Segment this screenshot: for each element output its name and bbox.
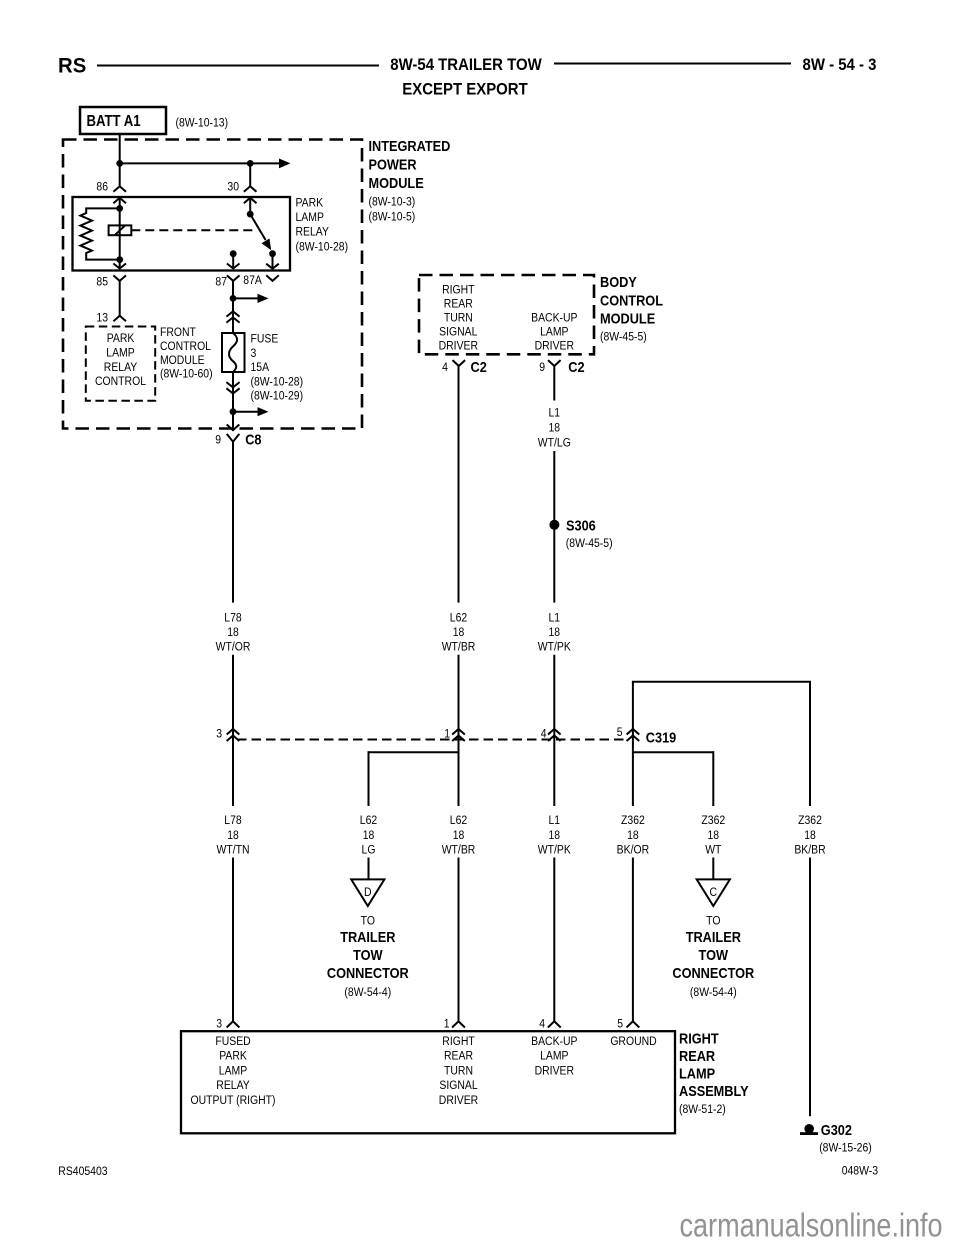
svg-text:4: 4 [539, 1018, 545, 1031]
connector C2 pin 4 female [453, 360, 466, 366]
relay suppression resistor [80, 208, 119, 259]
svg-text:(8W-54-4): (8W-54-4) [344, 986, 391, 999]
wire L78 to C319 [232, 655, 234, 806]
wire back-up lamp driver upper [553, 366, 555, 401]
svg-text:BACK-UP: BACK-UP [531, 1035, 577, 1048]
wire bus to pin 30 with arrow [120, 162, 280, 164]
svg-text:DRIVER: DRIVER [439, 1094, 478, 1107]
svg-text:5: 5 [617, 726, 623, 739]
svg-text:CONNECTOR: CONNECTOR [672, 964, 754, 981]
svg-text:1: 1 [444, 728, 450, 741]
svg-text:18: 18 [548, 626, 560, 639]
svg-text:PARK: PARK [296, 197, 324, 210]
svg-text:RS: RS [58, 54, 86, 77]
svg-text:9: 9 [215, 434, 221, 447]
svg-text:(8W-10-13): (8W-10-13) [176, 117, 229, 130]
C319 chevrons pin 4 [548, 729, 561, 735]
svg-text:G302: G302 [821, 1121, 852, 1138]
svg-text:WT/BR: WT/BR [442, 844, 476, 857]
svg-text:(8W-10-28): (8W-10-28) [296, 241, 349, 254]
connector C2 pin 9 female [548, 360, 561, 366]
fuse 3 element [222, 333, 245, 372]
pin 87 connector inside [227, 264, 240, 269]
wire L1 to C319 [553, 655, 555, 806]
svg-text:Z362: Z362 [798, 814, 822, 827]
svg-text:RELAY: RELAY [216, 1079, 250, 1092]
svg-text:TO: TO [361, 915, 376, 928]
svg-text:RELAY: RELAY [104, 361, 138, 374]
svg-text:4: 4 [541, 728, 547, 741]
svg-text:18: 18 [548, 829, 560, 842]
svg-text:MODULE: MODULE [369, 174, 424, 191]
svg-text:1: 1 [444, 1018, 450, 1031]
svg-text:Z362: Z362 [701, 814, 725, 827]
relay contact 87 dot [230, 250, 237, 257]
svg-text:CONTROL: CONTROL [600, 291, 663, 308]
svg-text:TO: TO [706, 915, 721, 928]
wire Z362 BK/OR lower [632, 858, 634, 1022]
svg-text:8W-54 TRAILER TOW: 8W-54 TRAILER TOW [390, 56, 542, 74]
pin 87A connector inside [266, 264, 279, 269]
off-page connector C [697, 879, 730, 906]
C319 chevrons pin 1 [452, 729, 465, 735]
svg-text:85: 85 [96, 276, 108, 289]
wire fuse down to C8 [232, 372, 234, 430]
svg-text:BODY: BODY [600, 273, 637, 290]
pin 87A connector unused [266, 275, 279, 281]
svg-text:(8W-54-4): (8W-54-4) [690, 986, 737, 999]
svg-text:13: 13 [96, 312, 108, 325]
wire L1 lower [553, 858, 555, 1022]
svg-text:18: 18 [363, 829, 375, 842]
svg-text:LAMP: LAMP [679, 1064, 715, 1081]
wire Z362 BK/BR to G302 [809, 858, 811, 1117]
svg-text:ASSEMBLY: ASSEMBLY [679, 1082, 749, 1099]
svg-text:Z362: Z362 [621, 814, 645, 827]
svg-text:BK/BR: BK/BR [794, 844, 825, 857]
pin 86 connector [113, 186, 126, 192]
svg-text:BACK-UP: BACK-UP [531, 312, 577, 325]
svg-text:DRIVER: DRIVER [535, 340, 574, 353]
pin 13 connector [113, 316, 126, 322]
svg-text:WT/BR: WT/BR [442, 641, 476, 654]
relay actuation dashed link [131, 229, 257, 231]
svg-text:WT/PK: WT/PK [538, 844, 571, 857]
svg-text:EXCEPT EXPORT: EXCEPT EXPORT [402, 81, 528, 99]
pin 85 connector female [113, 275, 126, 281]
svg-text:86: 86 [96, 181, 108, 194]
svg-text:3: 3 [251, 347, 257, 360]
svg-text:CONTROL: CONTROL [160, 340, 211, 353]
svg-text:PARK: PARK [219, 1050, 247, 1063]
wire BATT A1 to pin 86 [119, 134, 121, 186]
svg-text:048W-3: 048W-3 [842, 1165, 878, 1178]
wire C8 to L78 label [232, 442, 234, 603]
svg-text:carmanualsonline.info: carmanualsonline.info [680, 1208, 943, 1242]
svg-text:18: 18 [707, 829, 719, 842]
svg-text:3: 3 [216, 728, 222, 741]
svg-text:INTEGRATED: INTEGRATED [369, 137, 451, 154]
svg-text:8W - 54 - 3: 8W - 54 - 3 [803, 56, 877, 74]
junction dot switch common [247, 211, 254, 218]
svg-text:FUSED: FUSED [215, 1035, 250, 1048]
svg-text:(8W-10-28): (8W-10-28) [251, 376, 304, 389]
junction dot at 30 bus [247, 160, 254, 167]
svg-text:RIGHT: RIGHT [679, 1029, 719, 1046]
svg-text:BATT A1: BATT A1 [86, 113, 140, 130]
svg-text:(8W-51-2): (8W-51-2) [679, 1103, 726, 1116]
svg-text:18: 18 [227, 829, 239, 842]
svg-text:3: 3 [216, 1018, 222, 1031]
svg-text:OUTPUT (RIGHT): OUTPUT (RIGHT) [191, 1094, 276, 1107]
svg-text:DRIVER: DRIVER [535, 1065, 574, 1078]
C319 chevrons pin 3 [227, 729, 240, 735]
svg-text:(8W-45-5): (8W-45-5) [600, 331, 647, 344]
svg-text:WT/TN: WT/TN [216, 844, 249, 857]
svg-text:LG: LG [362, 844, 376, 857]
svg-text:TRAILER: TRAILER [340, 928, 395, 945]
off-page connector D [351, 879, 384, 906]
svg-text:15A: 15A [251, 361, 270, 374]
svg-text:L1: L1 [548, 407, 560, 420]
svg-text:WT: WT [705, 844, 721, 857]
pin C8 connector male [227, 425, 240, 431]
svg-text:4: 4 [442, 361, 448, 374]
svg-text:C2: C2 [568, 358, 585, 375]
junction dot coil top [116, 205, 123, 212]
svg-text:C319: C319 [646, 728, 677, 745]
header rule right [554, 63, 791, 65]
branch wire to trailer tow D [369, 751, 459, 753]
right rear lamp assembly box [181, 1031, 675, 1133]
svg-text:87: 87 [215, 276, 227, 289]
svg-text:L62: L62 [450, 814, 467, 827]
wire right rear turn signal driver [458, 366, 460, 603]
svg-text:MODULE: MODULE [600, 309, 655, 326]
svg-text:(8W-10-5): (8W-10-5) [369, 211, 416, 224]
svg-text:POWER: POWER [369, 155, 417, 172]
svg-text:CONTROL: CONTROL [95, 375, 146, 388]
svg-text:L78: L78 [224, 814, 241, 827]
header rule left [97, 65, 379, 67]
junction dot coil bottom [116, 256, 123, 263]
svg-text:(8W-15-26): (8W-15-26) [819, 1142, 872, 1155]
svg-text:SIGNAL: SIGNAL [439, 326, 477, 339]
svg-text:PARK: PARK [107, 332, 135, 345]
relay switch common stub [249, 198, 251, 214]
svg-text:D: D [364, 886, 372, 899]
svg-text:18: 18 [627, 829, 639, 842]
wire 87 down to fuse [232, 281, 234, 333]
svg-text:WT/OR: WT/OR [216, 641, 251, 654]
svg-text:LAMP: LAMP [540, 1050, 568, 1063]
svg-text:(8W-10-60): (8W-10-60) [160, 368, 213, 381]
pin 3 connector male [227, 1021, 240, 1027]
svg-text:TRAILER: TRAILER [686, 928, 741, 945]
svg-text:(8W-10-29): (8W-10-29) [251, 390, 304, 403]
svg-text:87A: 87A [243, 274, 262, 287]
svg-text:18: 18 [804, 829, 816, 842]
svg-text:LAMP: LAMP [106, 347, 134, 360]
pin 30 connector [244, 186, 257, 192]
svg-text:(8W-10-3): (8W-10-3) [369, 196, 416, 209]
svg-text:L1: L1 [548, 612, 560, 625]
svg-text:MODULE: MODULE [160, 354, 205, 367]
wire L78 lower [232, 858, 234, 1022]
junction dot with feed arrow 2 [230, 408, 237, 415]
svg-text:WT/LG: WT/LG [538, 437, 571, 450]
svg-text:REAR: REAR [444, 298, 473, 311]
body control module dashed box [419, 275, 594, 354]
relay coil wire 86 to 85 [119, 198, 121, 269]
svg-text:BK/OR: BK/OR [617, 844, 649, 857]
battery feed box BATT A1 [80, 107, 166, 134]
svg-text:GROUND: GROUND [610, 1035, 656, 1048]
connector C8 female [227, 434, 240, 442]
svg-text:RIGHT: RIGHT [442, 284, 475, 297]
wire to pin 30 [249, 163, 251, 186]
svg-text:TOW: TOW [353, 946, 383, 963]
svg-text:REAR: REAR [444, 1050, 473, 1063]
svg-text:RIGHT: RIGHT [442, 1035, 475, 1048]
svg-text:TURN: TURN [444, 312, 473, 325]
svg-text:TURN: TURN [444, 1065, 473, 1078]
svg-text:L62: L62 [360, 814, 377, 827]
svg-text:18: 18 [548, 422, 560, 435]
svg-text:18: 18 [227, 626, 239, 639]
svg-text:L1: L1 [548, 814, 560, 827]
svg-text:RS405403: RS405403 [58, 1165, 107, 1178]
junction dot at 86 bus [116, 160, 123, 167]
svg-text:18: 18 [453, 829, 465, 842]
junction dot with feed arrow [230, 295, 237, 302]
svg-text:30: 30 [227, 181, 239, 194]
svg-text:LAMP: LAMP [540, 326, 568, 339]
park lamp relay control dashed box [86, 327, 155, 401]
pin 87 connector female [227, 275, 240, 281]
svg-text:C: C [710, 886, 718, 899]
wire L62 lower to D [368, 858, 370, 880]
svg-text:RELAY: RELAY [296, 226, 330, 239]
wire back-up lamp to splice [553, 451, 555, 603]
svg-text:CONNECTOR: CONNECTOR [327, 964, 409, 981]
C319 chevrons pin 5 [627, 729, 640, 735]
svg-text:FUSE: FUSE [251, 333, 279, 346]
svg-text:C8: C8 [245, 430, 262, 447]
pin 85 connector inside [113, 264, 126, 269]
connector C319 dashed line [237, 739, 628, 741]
svg-text:9: 9 [539, 361, 545, 374]
svg-text:WT/PK: WT/PK [538, 641, 571, 654]
svg-text:DRIVER: DRIVER [439, 340, 478, 353]
relay contact 87A dot [269, 250, 276, 257]
svg-text:5: 5 [617, 1018, 623, 1031]
integrated power module dashed box [63, 140, 362, 429]
wire L62 to C319 [458, 655, 460, 806]
relay coil element [109, 225, 132, 235]
svg-text:C2: C2 [471, 358, 488, 375]
svg-text:(8W-45-5): (8W-45-5) [566, 537, 613, 550]
inline connector chevrons above fuse [226, 311, 239, 316]
splice S306 [549, 520, 559, 530]
svg-text:18: 18 [453, 626, 465, 639]
wire L62 lower [458, 858, 460, 1022]
branch wire to trailer tow C [633, 751, 713, 753]
svg-text:REAR: REAR [679, 1047, 715, 1064]
svg-text:FRONT: FRONT [160, 326, 196, 339]
pin 1 connector male [452, 1021, 465, 1027]
ground G302 symbol [804, 1124, 814, 1134]
svg-text:SIGNAL: SIGNAL [439, 1079, 477, 1092]
pin 4 connector male [548, 1021, 561, 1027]
svg-text:TOW: TOW [699, 946, 729, 963]
wire 85 to 13 [119, 281, 121, 316]
svg-text:LAMP: LAMP [296, 211, 324, 224]
park lamp relay box [73, 197, 291, 271]
svg-text:S306: S306 [566, 516, 596, 533]
svg-text:L62: L62 [450, 612, 467, 625]
inline connector chevrons below fuse [226, 382, 239, 387]
wire Z362 WT lower to C [712, 858, 714, 880]
ground loop wire up and over [632, 682, 634, 806]
svg-text:LAMP: LAMP [219, 1065, 247, 1078]
svg-text:L78: L78 [224, 612, 241, 625]
pin 5 connector male [627, 1021, 640, 1027]
relay switch blade with arrow [250, 214, 265, 240]
